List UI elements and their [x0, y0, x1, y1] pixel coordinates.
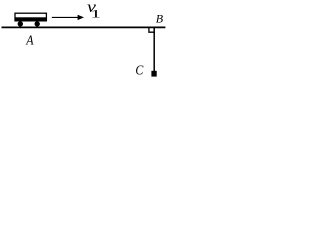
svg-text:B: B — [156, 11, 164, 25]
svg-text:1: 1 — [90, 7, 101, 21]
svg-text:A: A — [25, 32, 33, 48]
svg-text:C: C — [135, 62, 143, 78]
